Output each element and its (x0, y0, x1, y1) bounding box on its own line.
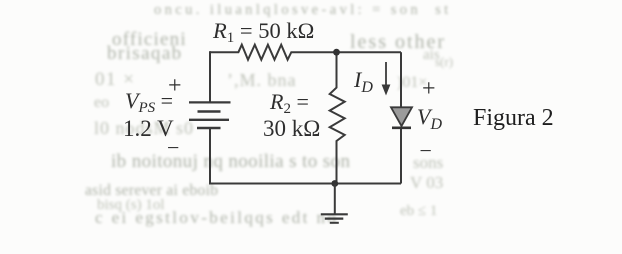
label ID (354, 69, 373, 96)
label 30 kOhm (263, 117, 320, 140)
wire top-left horizontal with resistor R1 zigzag (210, 45, 401, 60)
battery VPS plate long bottom (189, 119, 229, 121)
battery minus sign (167, 137, 179, 159)
battery VPS plate short bottom (197, 127, 221, 130)
node junction dot top (R1/R2) (333, 49, 340, 56)
diode D cathode bar (392, 127, 411, 130)
battery plus sign (168, 74, 182, 98)
wire left vertical (top) (209, 51, 211, 102)
node junction dot bottom (ground) (331, 180, 338, 187)
wire bottom horizontal (209, 183, 401, 185)
resistor R2 branch wire + zigzag (330, 52, 345, 183)
wire left vertical (bottom) (209, 128, 211, 184)
label VD (417, 106, 442, 133)
label R2 (270, 91, 309, 117)
ground symbol (321, 184, 348, 223)
diode plus sign (422, 77, 436, 101)
wire right vertical (bottom, from diode) (400, 129, 402, 184)
diode D triangle (391, 107, 412, 126)
diode minus sign (420, 140, 432, 162)
current ID arrow (385, 62, 387, 86)
label 1.2 V (123, 117, 174, 140)
caption Figura 2 (473, 106, 554, 130)
battery VPS plate short (198, 110, 221, 113)
label VPS (125, 90, 173, 116)
bleed-through background text (decorative) (154, 3, 452, 18)
wire right vertical (top, to diode) (400, 52, 402, 107)
battery VPS plate long top (189, 101, 231, 103)
label R1 = 50 kOhm (213, 20, 314, 46)
